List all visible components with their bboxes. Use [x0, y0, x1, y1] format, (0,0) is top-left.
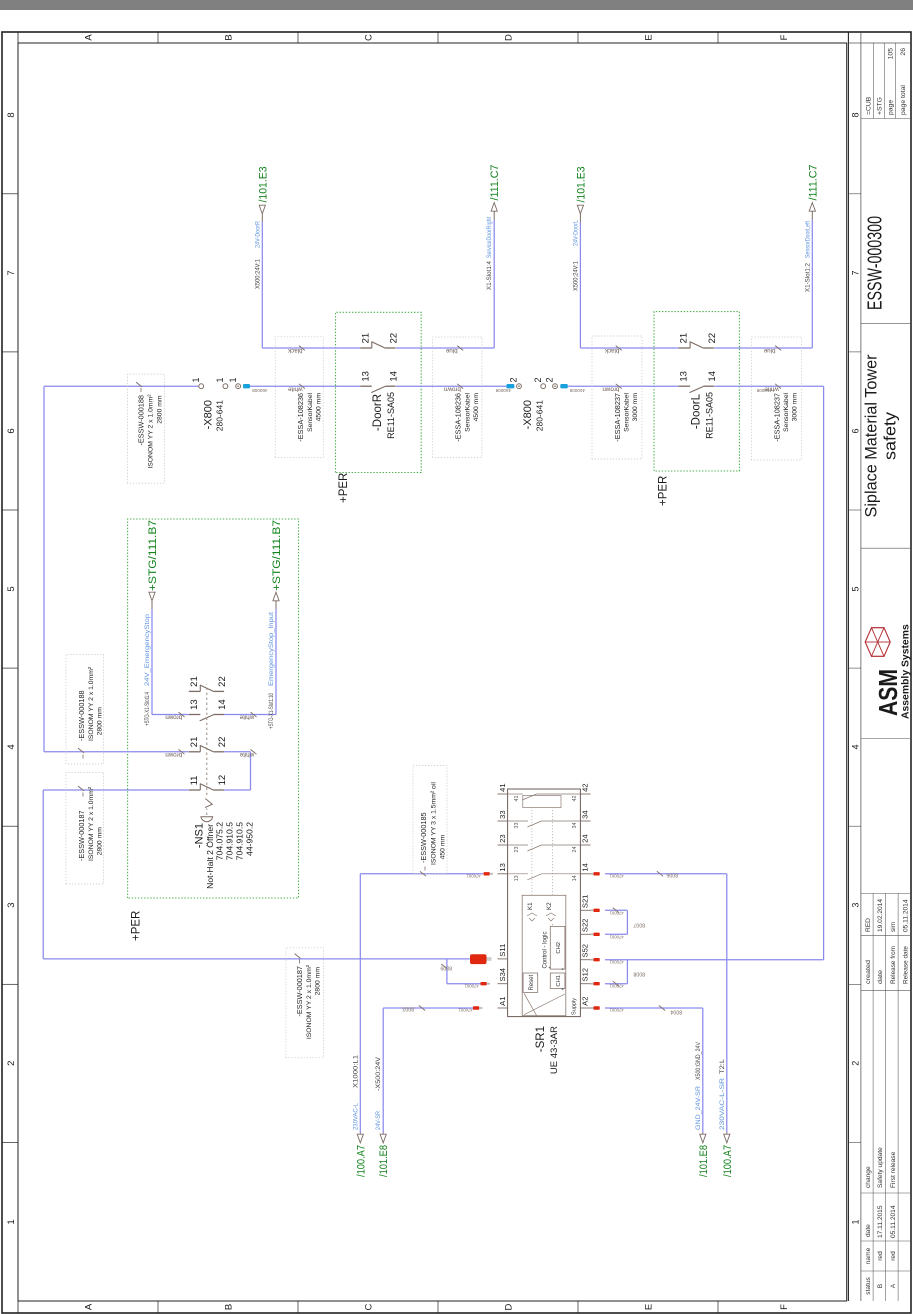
svg-text:ISONOM YY 3 x 1.5mm² oil: ISONOM YY 3 x 1.5mm² oil: [430, 782, 437, 865]
svg-text:8004: 8004: [670, 1009, 682, 1015]
svg-text:-SR1: -SR1: [535, 1026, 547, 1052]
svg-text:+: +: [561, 988, 567, 991]
switch -DoorR NC contact 21-22: [360, 347, 372, 349]
svg-text:8: 8: [6, 112, 17, 117]
svg-text:1: 1: [215, 377, 225, 382]
viewer gray top bar: [0, 0, 913, 10]
switch -NS1 contact 11-12: [189, 789, 201, 791]
svg-text:F: F: [779, 34, 790, 40]
switch -NS1 contact 21-22: [189, 751, 201, 753]
svg-text:11: 11: [189, 776, 200, 786]
svg-text:X1000:L1: X1000:L1: [352, 1054, 359, 1088]
cable -ESSW-000185: [413, 766, 447, 874]
svg-text:33: 33: [514, 823, 520, 829]
ferrule S11 large red: [470, 954, 487, 964]
switch -NS1 contact 21-22 unused: [189, 690, 201, 692]
svg-text:UE 43-3AR: UE 43-3AR: [549, 1026, 560, 1074]
svg-text:24V-DoorR: 24V-DoorR: [254, 221, 261, 248]
svg-text:2800 mm: 2800 mm: [156, 395, 163, 424]
svg-text:4500 mm: 4500 mm: [315, 393, 322, 422]
wire GND_24V to /101.E8: [702, 1008, 704, 1133]
svg-text:/101.E3: /101.E3: [575, 167, 587, 203]
svg-text:status: status: [865, 1277, 872, 1295]
svg-text:-NS1: -NS1: [194, 823, 206, 848]
svg-text:A: A: [890, 1283, 897, 1288]
svg-text:ServiceDoorRight: ServiceDoorRight: [486, 217, 493, 258]
wire DoorR NC below contact: [396, 347, 494, 349]
svg-text:4500 mm: 4500 mm: [473, 393, 480, 422]
svg-text:First release: First release: [890, 1151, 897, 1188]
svg-text:D: D: [504, 34, 515, 41]
svg-text:Release from: Release from: [890, 946, 897, 984]
row letter strip left: [18, 1300, 847, 1302]
arrow from /101.E8 24V-SR: [380, 1134, 386, 1143]
svg-text:GND_24V-SR: GND_24V-SR: [695, 1086, 702, 1130]
svg-text:+PER: +PER: [658, 476, 670, 506]
svg-text:470001: 470001: [609, 935, 624, 940]
svg-text:470001: 470001: [609, 984, 624, 989]
page info block: [873, 43, 875, 119]
svg-text:-: -: [550, 924, 556, 926]
svg-text:black: black: [287, 347, 302, 354]
wire 230VAC-L-SR to /100.A7: [726, 874, 728, 1133]
svg-text:RED: RED: [865, 918, 872, 932]
svg-text:SensorKabel: SensorKabel: [624, 393, 631, 432]
wire pin14 down: [605, 873, 727, 875]
svg-text:13: 13: [360, 371, 371, 382]
svg-text:-ESSA-108236: -ESSA-108236: [454, 393, 463, 442]
svg-text:ISONOM YY 2 x 1.0mm²: ISONOM YY 2 x 1.0mm²: [148, 394, 155, 469]
svg-text:B: B: [877, 1283, 884, 1288]
svg-text:/100.A7: /100.A7: [722, 1145, 734, 1177]
svg-text:280-641: 280-641: [215, 400, 225, 431]
arrow to /100.A7 230VAC-L-SR: [724, 1134, 730, 1143]
svg-text:D: D: [504, 1303, 515, 1310]
svg-text:brown: brown: [602, 385, 619, 392]
svg-text:Siplace Material Tower: Siplace Material Tower: [863, 354, 881, 517]
svg-text:460009: 460009: [569, 388, 585, 393]
wire 24V-SR from /101.E8: [382, 1008, 384, 1133]
svg-text:5: 5: [850, 586, 860, 591]
svg-text:13: 13: [189, 699, 200, 710]
relay -SR1 bottom pins: [580, 1007, 590, 1009]
wire NS1 U horizontal: [250, 752, 252, 790]
wire DoorL NC below contact: [714, 347, 812, 349]
wire S52 drop long: [605, 959, 824, 961]
svg-text:S11: S11: [498, 944, 507, 957]
svg-text:SensorDoorLeft: SensorDoorLeft: [804, 221, 811, 258]
svg-text:2800 mm: 2800 mm: [315, 967, 322, 996]
svg-text:X1-Slot1:2: X1-Slot1:2: [804, 263, 811, 292]
wire main rail segment top: [44, 385, 198, 387]
svg-text:-DoorR: -DoorR: [372, 394, 384, 431]
svg-text:SensorKabel: SensorKabel: [783, 393, 790, 432]
svg-text:13: 13: [514, 875, 520, 881]
svg-text:-X800: -X800: [203, 400, 215, 429]
svg-text:3000 mm: 3000 mm: [792, 393, 799, 422]
svg-text:date: date: [865, 1224, 872, 1237]
svg-text:ESSW-000300: ESSW-000300: [865, 216, 887, 310]
svg-text:S22: S22: [581, 919, 590, 933]
svg-text:date: date: [877, 970, 884, 984]
svg-text:17.11.2015: 17.11.2015: [877, 1205, 884, 1238]
svg-text:470001: 470001: [458, 1008, 473, 1013]
svg-text:24V_EmergencyStop: 24V_EmergencyStop: [144, 613, 151, 686]
wire 24V-DoorL horiz from /101.E3: [579, 222, 581, 349]
svg-text:34: 34: [581, 810, 590, 818]
svg-text:460008: 460008: [495, 388, 511, 393]
svg-text:X500:GND_24V: X500:GND_24V: [695, 1041, 702, 1080]
svg-text:33: 33: [498, 810, 507, 818]
relay internal contacts: [508, 873, 528, 875]
svg-text:14: 14: [217, 699, 228, 710]
relay Supply diagonals: [524, 994, 565, 1015]
svg-text:-X800: -X800: [522, 400, 534, 429]
wire 230VAC-L from /100.A7: [359, 874, 361, 1133]
location box +PER NS1: [128, 519, 299, 898]
svg-text:A: A: [84, 1303, 95, 1310]
svg-text:A: A: [84, 34, 95, 41]
svg-text:name: name: [865, 1247, 872, 1264]
svg-text:=CUB: =CUB: [866, 96, 873, 115]
svg-text:470001: 470001: [464, 984, 479, 989]
wire 24V-DoorR horiz to arrow: [261, 222, 263, 349]
svg-text:Release date: Release date: [903, 946, 910, 984]
ferrule A1: [473, 1006, 479, 1009]
arrow from /101.E3 24V-DoorL: [577, 205, 583, 214]
svg-text:21: 21: [360, 333, 371, 344]
svg-text:2800 mm: 2800 mm: [97, 707, 104, 736]
svg-text:+STG/111.B7: +STG/111.B7: [147, 520, 159, 591]
svg-text:14: 14: [389, 371, 400, 382]
svg-text:Supply: Supply: [572, 998, 578, 1015]
relay internal contact 41-42: [523, 795, 561, 807]
relay inner logic box: [522, 895, 566, 1015]
svg-text:S34: S34: [498, 968, 507, 982]
svg-text:ISONOM YY 2 x 1.0mm²: ISONOM YY 2 x 1.0mm²: [88, 666, 95, 741]
svg-text:C: C: [364, 34, 375, 41]
svg-text:/100.A7: /100.A7: [355, 1145, 367, 1177]
svg-text:S52: S52: [581, 944, 590, 958]
wire bridge S21-S22: [626, 910, 628, 934]
terminal -X800:1 group: [199, 384, 204, 389]
svg-text:22: 22: [707, 333, 718, 344]
svg-text:A1: A1: [498, 997, 507, 1006]
title cell dividers: [861, 738, 911, 740]
wire NS1 drop ESSW-000188: [44, 751, 189, 753]
svg-text:26: 26: [900, 48, 907, 56]
svg-text:ISONOM YY 2 x 1.0mm²: ISONOM YY 2 x 1.0mm²: [88, 786, 95, 861]
cable -ESSA-108237 second: [751, 337, 801, 460]
svg-text:22: 22: [389, 333, 400, 344]
svg-text:/101.E8: /101.E8: [378, 1145, 390, 1177]
svg-text:14: 14: [581, 863, 590, 871]
svg-text:7: 7: [850, 270, 860, 275]
wire bridge S52-S12: [626, 960, 628, 984]
arrow to /111.C7 ServiceDoorRight: [491, 203, 497, 212]
wire rail1 horizontal 24V top: [43, 386, 45, 752]
wire DoorL NC drop: [580, 347, 678, 349]
svg-text:34: 34: [572, 823, 578, 829]
svg-text:Control - logic: Control - logic: [543, 931, 549, 968]
svg-text:CH1: CH1: [556, 975, 562, 987]
svg-text:460008: 460008: [252, 388, 268, 393]
relay CH2 box: [550, 926, 565, 969]
svg-text:blue: blue: [445, 347, 457, 354]
svg-text:/111.C7: /111.C7: [489, 165, 501, 201]
svg-text:/101.E3: /101.E3: [257, 167, 269, 203]
svg-text:2800 mm: 2800 mm: [97, 827, 104, 856]
svg-text:42: 42: [572, 796, 578, 802]
svg-text:+STG-X1-Slot1:4: +STG-X1-Slot1:4: [144, 692, 151, 726]
row letter strip right: [18, 42, 847, 44]
wire SR1 pin13 drop: [360, 873, 483, 875]
svg-text:22: 22: [217, 676, 228, 687]
svg-text:+STG-X1-Slot1:10: +STG-X1-Slot1:10: [268, 693, 275, 729]
svg-text:42: 42: [581, 783, 590, 791]
svg-text:X1-Slot1:4: X1-Slot1:4: [486, 261, 493, 290]
arrow to /111.C7 SensorDoorLeft: [809, 203, 815, 212]
svg-text:05.11.2014: 05.11.2014: [903, 899, 910, 932]
svg-text:Not-Halt 2 Öffner: Not-Halt 2 Öffner: [205, 824, 215, 889]
svg-text:+: +: [561, 968, 567, 971]
svg-text:1: 1: [191, 377, 201, 382]
wire NS1 drop ESSW-000187: [43, 789, 189, 791]
wire SR1 A1 drop: [383, 1007, 473, 1009]
svg-text:704.910.5: 704.910.5: [235, 822, 245, 860]
wire main rail segment X800.2-DoorL: [568, 385, 679, 387]
svg-text:2: 2: [509, 377, 519, 382]
svg-text:704.910.5: 704.910.5: [225, 822, 235, 860]
svg-text:8006: 8006: [666, 872, 678, 878]
svg-text:14: 14: [707, 371, 718, 382]
svg-text:-ESSW-000187: -ESSW-000187: [77, 810, 86, 861]
svg-text:-DoorL: -DoorL: [691, 393, 703, 429]
svg-text:8007: 8007: [633, 922, 645, 928]
svg-text:Safety update: Safety update: [877, 1147, 884, 1188]
switch -DoorR NO contact 13-14: [360, 385, 372, 387]
svg-text:1: 1: [6, 1219, 17, 1224]
svg-text:280-641: 280-641: [535, 400, 545, 431]
svg-text:brown: brown: [165, 714, 182, 721]
svg-text:4: 4: [850, 744, 860, 749]
svg-text:24V-SR: 24V-SR: [375, 1111, 382, 1130]
svg-text:white: white: [764, 385, 780, 392]
svg-text:1: 1: [850, 1219, 860, 1224]
arrow from /101.E3 24V-DoorR: [259, 205, 265, 214]
relay pin ferrules top: [484, 872, 490, 875]
wire bottom horizontal to S52: [823, 386, 825, 960]
cable -ESSW-000187 NS1: [66, 772, 104, 884]
svg-text:05.11.2014: 05.11.2014: [890, 1205, 897, 1238]
switch -NS1 contact 13-14: [189, 714, 201, 716]
svg-text:EmergencyStop_Input: EmergencyStop_Input: [268, 612, 275, 686]
wire +STG vertical through contact 13-14: [152, 714, 189, 716]
title block top border: [847, 32, 849, 1301]
svg-text:-ESSW-000185: -ESSW-000185: [419, 812, 428, 863]
svg-text:470001: 470001: [609, 911, 624, 916]
svg-text:RE11-SA05: RE11-SA05: [705, 392, 715, 439]
svg-text:white: white: [239, 751, 255, 758]
svg-text:red: red: [877, 1251, 884, 1261]
svg-text:3: 3: [6, 902, 17, 907]
svg-text:page: page: [888, 100, 895, 115]
svg-text:-ESSW-000187: -ESSW-000187: [295, 966, 304, 1017]
svg-text:704.075.2: 704.075.2: [215, 822, 225, 860]
svg-text:C: C: [364, 1303, 375, 1310]
svg-text:230VAC-L-SR: 230VAC-L-SR: [719, 1078, 726, 1130]
wire S21 stub: [605, 909, 627, 911]
svg-text:105: 105: [888, 48, 895, 60]
svg-text:5: 5: [6, 586, 17, 591]
svg-text:change: change: [865, 1166, 872, 1188]
svg-text:-ESSW-000188: -ESSW-000188: [77, 690, 86, 741]
wire main rail segment X800.1-DoorR: [250, 385, 360, 387]
switch -DoorL NC contact 21-22: [679, 347, 691, 349]
svg-text:3: 3: [850, 903, 860, 908]
svg-text:470001: 470001: [609, 874, 624, 879]
svg-text:3000 mm: 3000 mm: [632, 393, 639, 422]
svg-text:white: white: [288, 385, 304, 392]
svg-text:470001: 470001: [609, 1008, 624, 1013]
cable -ESSW-000187 SR: [286, 948, 324, 1058]
svg-text:470001: 470001: [466, 874, 481, 879]
svg-text:SensorKabel: SensorKabel: [464, 393, 471, 432]
svg-text:21: 21: [189, 676, 200, 687]
svg-text:2: 2: [545, 377, 555, 382]
svg-text:24: 24: [572, 847, 578, 853]
location box +PER DoorL: [654, 312, 739, 471]
wire DoorL NC to /111.C7: [811, 220, 813, 349]
actuator spring -NS1: [205, 799, 212, 808]
relay -SR1 body: [508, 789, 581, 1017]
wire S12 stub: [605, 983, 627, 985]
arrow from +STG/111.B7: [149, 592, 155, 601]
svg-text:Reset: Reset: [529, 975, 535, 991]
location box +PER DoorR: [336, 312, 422, 472]
svg-text:24: 24: [581, 834, 590, 842]
svg-text:8003: 8003: [402, 1006, 414, 1012]
svg-text:F: F: [779, 1304, 790, 1310]
arrow from /100.A7 230VAC-L: [357, 1134, 363, 1143]
svg-text:Assembly Systems: Assembly Systems: [901, 624, 912, 719]
svg-text:+PER: +PER: [131, 911, 143, 941]
cable -ESSA-108236 first: [275, 337, 323, 458]
svg-text:41: 41: [514, 796, 520, 802]
svg-text:23: 23: [514, 847, 520, 853]
svg-text:8: 8: [850, 112, 860, 117]
svg-text:S21: S21: [581, 895, 590, 909]
relay Reset box: [523, 973, 538, 992]
revision table: [872, 893, 874, 1301]
wire DoorR NC drop: [262, 347, 360, 349]
emergency stop actuator head -NS1: [201, 817, 213, 822]
svg-text:SensorKabel: SensorKabel: [307, 393, 314, 432]
svg-text:blue: blue: [763, 347, 775, 354]
svg-text:B: B: [224, 34, 235, 40]
svg-text:13: 13: [679, 371, 690, 382]
svg-text:S12: S12: [581, 968, 590, 982]
svg-text:CH2: CH2: [556, 942, 562, 954]
switch -DoorL NO contact 13-14: [679, 385, 691, 387]
svg-text:page total: page total: [900, 85, 907, 115]
title block number scale: [860, 32, 862, 1301]
svg-text:white: white: [239, 714, 255, 721]
svg-text:+STG: +STG: [877, 97, 884, 115]
svg-text:/111.C7: /111.C7: [807, 165, 819, 201]
wire S11 drop: [43, 958, 470, 960]
svg-text:21: 21: [189, 737, 200, 748]
svg-text:ISONOM YY 2 x 1.0mm²: ISONOM YY 2 x 1.0mm²: [306, 964, 313, 1039]
svg-text:E: E: [644, 1304, 655, 1310]
svg-text:14: 14: [572, 875, 578, 881]
cable -ESSA-108237 first: [592, 336, 642, 459]
wire +STG loop right: [275, 609, 277, 715]
column number strip top: [17, 32, 19, 1313]
svg-text:brown: brown: [443, 385, 460, 392]
svg-text:-ESSA-108236: -ESSA-108236: [296, 393, 305, 442]
svg-text:created: created: [865, 960, 872, 984]
wire NS1 up to contact 11-12: [224, 789, 250, 791]
svg-text:22: 22: [217, 737, 228, 748]
wire main rail segment DoorR-X800.2: [396, 385, 507, 387]
svg-text:2: 2: [6, 1061, 17, 1066]
cable -ESSA-108236 second: [433, 337, 482, 457]
svg-text:+PER: +PER: [338, 473, 350, 503]
svg-text:44-950.2: 44-950.2: [245, 822, 255, 856]
svg-text:T2:L: T2:L: [719, 1058, 726, 1074]
svg-text:2: 2: [533, 377, 543, 382]
svg-text:sim: sim: [890, 921, 897, 932]
svg-text:X500:24V:1: X500:24V:1: [254, 259, 261, 289]
ASM logo: [865, 628, 890, 657]
svg-text:-ESSA-108237: -ESSA-108237: [613, 393, 622, 442]
svg-text:21: 21: [679, 333, 690, 344]
svg-text:230VAC-L: 230VAC-L: [352, 1103, 359, 1130]
svg-text:6: 6: [850, 428, 860, 433]
svg-text:-ESSA-108237: -ESSA-108237: [772, 393, 781, 442]
wire DoorR NC to /111.C7: [493, 220, 495, 349]
svg-text:8008: 8008: [633, 971, 645, 977]
svg-text:12: 12: [217, 775, 228, 786]
svg-text:+STG/111.B7: +STG/111.B7: [271, 520, 283, 591]
svg-text:ASM: ASM: [873, 669, 903, 716]
relay -SR1 top pins: [498, 1007, 508, 1009]
cable -ESSW-000188 NS1: [66, 654, 104, 764]
svg-text:-ESSW-000188: -ESSW-000188: [137, 395, 146, 446]
wire main rail segment DoorL-corner: [714, 385, 823, 387]
mechanical linkage -NS1: [206, 685, 208, 796]
svg-text:A2: A2: [581, 997, 590, 1006]
svg-text:E: E: [644, 34, 655, 40]
svg-text:4: 4: [6, 744, 17, 749]
svg-text:1: 1: [228, 377, 238, 382]
svg-text:19.02.2014: 19.02.2014: [877, 899, 884, 932]
cable -ESSW-000188 DoorR: [128, 374, 165, 483]
wire A2 GND down: [605, 1007, 703, 1009]
svg-text:K1: K1: [527, 902, 534, 910]
svg-text:safety: safety: [882, 411, 900, 460]
relay pin ferrules bottom: [591, 1007, 594, 1009]
relay K linkage dashed: [531, 808, 533, 895]
svg-text:24V-DoorL: 24V-DoorL: [572, 220, 579, 246]
wire NS1 below contact 21-22: [224, 751, 250, 753]
svg-text:K2: K2: [546, 902, 553, 910]
svg-text:6: 6: [6, 428, 17, 433]
arrow to /101.E8 GND_24V-SR: [700, 1134, 706, 1143]
terminal -X800:2 group: [506, 384, 514, 388]
svg-text:brown: brown: [165, 751, 182, 758]
